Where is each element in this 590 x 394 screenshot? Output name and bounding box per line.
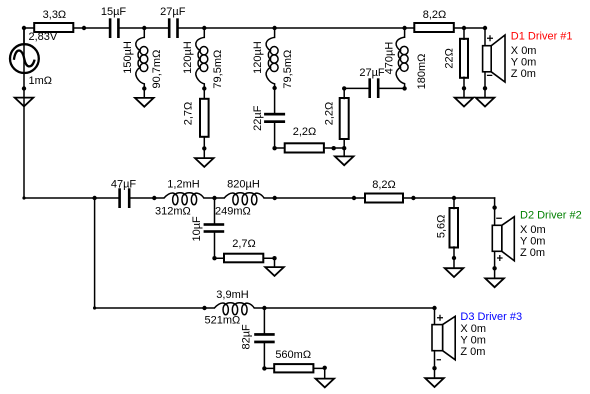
svg-text:X 0m: X 0m	[460, 323, 486, 335]
wire R5 top lead	[343, 88, 345, 98]
node F	[462, 26, 466, 30]
svg-text:249mΩ: 249mΩ	[215, 206, 251, 218]
svg-text:D2 Driver #2: D2 Driver #2	[520, 210, 582, 222]
capacitor C7 82uF	[241, 324, 275, 350]
svg-text:2,2Ω: 2,2Ω	[293, 126, 317, 138]
node row3 corner	[93, 306, 96, 309]
ground D1	[476, 98, 495, 107]
svg-text:27µF: 27µF	[359, 67, 385, 79]
node before R7	[352, 196, 356, 200]
node after L7	[262, 306, 266, 310]
svg-text:312mΩ: 312mΩ	[155, 206, 191, 218]
svg-text:Y 0m: Y 0m	[520, 236, 545, 248]
wire L7 to D3	[255, 307, 435, 309]
inductor L3 120uH	[252, 37, 294, 88]
ground R3	[195, 158, 214, 167]
wire source bottom to row2	[23, 28, 25, 198]
label D2	[520, 210, 582, 259]
wire R10 to ground	[314, 368, 325, 378]
label D3	[460, 311, 522, 358]
resistor R5 2,2 ohm vertical	[323, 98, 348, 139]
svg-text:2,2Ω: 2,2Ω	[323, 102, 335, 126]
resistor R8 5,6 ohm	[435, 208, 458, 248]
wire L3 leads	[274, 28, 276, 113]
svg-text:2,7Ω: 2,7Ω	[183, 102, 195, 126]
svg-text:1,2mH: 1,2mH	[167, 179, 199, 191]
resistor R9 2,7 ohm	[224, 238, 263, 262]
node G	[483, 26, 487, 30]
svg-text:22Ω: 22Ω	[443, 48, 455, 68]
node after R1	[82, 26, 86, 30]
node after R7	[411, 196, 415, 200]
ground R6	[455, 98, 474, 107]
svg-text:820µH: 820µH	[227, 179, 260, 191]
wire R3 to ground	[203, 138, 205, 158]
wire rail C1 to C2	[120, 27, 168, 29]
ground R9	[265, 267, 284, 276]
wire C6 down corner	[215, 233, 225, 258]
node R4 right	[332, 146, 336, 150]
ground source	[15, 98, 34, 107]
inductor L5 1,2mH	[155, 179, 204, 218]
wire row2 to row3	[94, 198, 96, 308]
node R8 top	[452, 196, 456, 200]
node L1 bottom	[142, 86, 146, 90]
capacitor C4 27uF	[359, 67, 385, 98]
wire C5 to L5	[131, 197, 164, 199]
ground R5	[335, 156, 354, 165]
wire D2 top lead	[494, 198, 496, 225]
svg-text:3,9mH: 3,9mH	[216, 289, 248, 301]
wire R6 leads	[463, 28, 465, 98]
node row2 mid	[212, 196, 216, 200]
node row2 left corner	[22, 196, 25, 199]
node R3 bottom	[202, 146, 206, 150]
capacitor C6 10uF	[191, 216, 224, 242]
node D1 bottom	[483, 86, 487, 90]
inductor L6 820uH	[215, 179, 264, 218]
wire R8 leads	[453, 198, 455, 268]
node shunt bottom	[342, 146, 346, 150]
speaker D3	[432, 315, 455, 360]
wire top rail left	[24, 27, 34, 29]
wire C4 to L4	[380, 87, 405, 89]
node R8 bottom	[452, 256, 456, 260]
node before L7	[202, 306, 206, 310]
svg-text:90,7mΩ: 90,7mΩ	[151, 50, 163, 89]
wire rail R2 to D1	[454, 27, 485, 29]
capacitor C1 15uF	[101, 6, 127, 38]
resistor R1 3,3 ohm	[34, 9, 73, 32]
svg-text:X 0m: X 0m	[511, 45, 537, 57]
svg-text:10µF: 10µF	[191, 216, 203, 242]
svg-text:79,5mΩ: 79,5mΩ	[212, 50, 224, 89]
node D2 bottom	[492, 266, 496, 270]
wire 82uF branch top	[263, 308, 265, 333]
svg-text:47µF: 47µF	[111, 179, 137, 191]
wire R5 to C4	[344, 87, 368, 89]
speaker D2	[492, 217, 514, 261]
node source minus	[22, 86, 26, 90]
wire row2 rail left	[24, 197, 118, 199]
node D3 top	[432, 306, 436, 310]
svg-text:Y 0m: Y 0m	[460, 334, 485, 346]
node C7 bottom	[262, 366, 266, 370]
svg-text:120µH: 120µH	[182, 41, 194, 74]
node L3 bottom	[272, 86, 276, 90]
wire 10uF branch top	[214, 198, 216, 224]
node after L6	[273, 196, 277, 200]
wire D1 top lead	[484, 28, 486, 46]
wire L2 leads	[203, 28, 205, 99]
svg-text:8,2Ω: 8,2Ω	[372, 179, 396, 191]
wire L1 leads	[143, 28, 145, 98]
svg-text:470µH: 470µH	[384, 42, 396, 75]
svg-text:X 0m: X 0m	[520, 224, 546, 236]
svg-text:2,83V: 2,83V	[29, 31, 58, 43]
svg-text:79,5mΩ: 79,5mΩ	[282, 50, 294, 89]
ground D2	[485, 278, 504, 287]
resistor R2 8,2 ohm	[414, 9, 454, 32]
wire R7 to D2	[404, 197, 495, 199]
node R6 bottom	[462, 86, 466, 90]
voltage source V1	[10, 31, 58, 87]
svg-text:150µH: 150µH	[122, 41, 134, 74]
node L4 bottom	[402, 86, 406, 90]
node B	[142, 26, 146, 30]
wire row3 rail left	[95, 307, 215, 309]
svg-text:2,7Ω: 2,7Ω	[232, 238, 256, 250]
wire source top lead	[23, 28, 25, 44]
resistor R10 560m ohm	[274, 349, 313, 372]
capacitor C2 27uF	[160, 6, 186, 38]
svg-text:82µF: 82µF	[241, 324, 253, 350]
svg-text:Z 0m: Z 0m	[460, 346, 485, 358]
svg-text:521mΩ: 521mΩ	[205, 315, 241, 327]
svg-text:Z 0m: Z 0m	[511, 68, 536, 80]
svg-text:5,6Ω: 5,6Ω	[435, 215, 447, 239]
svg-text:180mΩ: 180mΩ	[416, 54, 428, 90]
wire C7 down corner	[264, 343, 274, 368]
speaker D1	[483, 35, 505, 82]
node D3 bottom	[432, 366, 436, 370]
wire D1 bottom lead	[484, 72, 486, 98]
node row2 junction	[92, 196, 96, 200]
svg-text:15µF: 15µF	[101, 6, 127, 18]
svg-text:3,3Ω: 3,3Ω	[43, 9, 67, 21]
inductor L7 3,9mH	[205, 289, 255, 327]
svg-text:27µF: 27µF	[160, 6, 186, 18]
node before L5	[152, 196, 156, 200]
wire L5 to L6	[204, 197, 224, 199]
svg-text:Y 0m: Y 0m	[511, 56, 536, 68]
resistor R7 8,2 ohm	[365, 179, 403, 203]
resistor R3 2,7 ohm	[183, 99, 209, 137]
wire L4 leads	[404, 28, 406, 88]
inductor L1 150uH	[122, 37, 163, 88]
node L2 bottom	[202, 86, 206, 90]
svg-text:8,2Ω: 8,2Ω	[423, 9, 447, 21]
ground R8	[445, 268, 464, 277]
svg-text:120µH: 120µH	[252, 41, 264, 74]
node R5 top	[342, 86, 346, 90]
wire R4 to ground node	[324, 147, 345, 149]
wire rail R1 to C1	[74, 27, 109, 29]
wire R9 to ground	[264, 258, 275, 267]
node A	[22, 26, 26, 30]
resistor R4 2,2 ohm	[285, 126, 324, 153]
ground D3	[425, 378, 444, 387]
svg-text:Z 0m: Z 0m	[520, 247, 545, 259]
inductor L4 470uH	[384, 37, 428, 89]
wire rail C2 to R2	[179, 27, 415, 29]
wire R5 bottom to ground	[343, 140, 345, 157]
svg-text:22µF: 22µF	[252, 105, 264, 131]
node D2 top	[492, 205, 496, 209]
svg-text:1mΩ: 1mΩ	[29, 75, 53, 87]
node E	[402, 26, 406, 30]
node R10 right	[323, 366, 327, 370]
capacitor C3 22uF	[252, 105, 285, 131]
ground R10	[316, 379, 335, 388]
ground L1	[135, 98, 154, 107]
node C3 corner	[272, 146, 276, 150]
wire C3 down and corner	[275, 123, 284, 148]
wire D3 top lead	[434, 308, 436, 325]
inductor L2 120uH	[182, 37, 224, 88]
svg-text:D1 Driver #1: D1 Driver #1	[511, 31, 573, 43]
resistor R6 22 ohm	[443, 39, 468, 78]
wire L6 to R7	[264, 197, 364, 199]
label D1	[511, 31, 573, 80]
wire D3 bottom lead	[434, 351, 436, 378]
wire D2 bottom lead	[494, 251, 496, 278]
node C6 bottom	[212, 256, 216, 260]
node C	[202, 26, 206, 30]
svg-text:D3 Driver #3: D3 Driver #3	[460, 311, 522, 323]
node D	[272, 26, 276, 30]
svg-text:560mΩ: 560mΩ	[275, 349, 311, 361]
node R9 right	[272, 256, 276, 260]
capacitor C5 47uF	[111, 179, 137, 209]
